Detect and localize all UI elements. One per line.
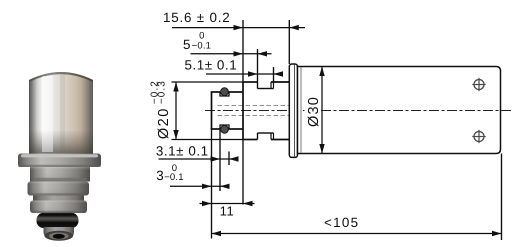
svg-text:11: 11 [220, 204, 235, 219]
svg-text:Ø20: Ø20 [156, 107, 172, 139]
svg-text:Ø30: Ø30 [306, 96, 322, 127]
svg-text:−0.3: −0.3 [157, 80, 168, 104]
svg-text:3.1± 0.1: 3.1± 0.1 [156, 143, 209, 158]
svg-text:5: 5 [183, 37, 191, 52]
svg-text:−0.1: −0.1 [192, 41, 212, 52]
svg-text:3: 3 [156, 168, 164, 183]
svg-text:15.6 ± 0.2: 15.6 ± 0.2 [163, 10, 230, 25]
svg-text:−0.1: −0.1 [164, 172, 184, 183]
svg-text:<105: <105 [324, 215, 359, 230]
svg-text:5.1± 0.1: 5.1± 0.1 [185, 58, 238, 73]
